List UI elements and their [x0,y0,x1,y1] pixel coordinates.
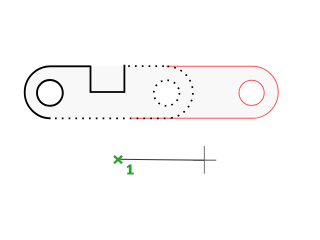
link body fill (light gray interior of stretched link) [25,66,278,118]
wire: solid black notch [91,65,125,92]
node label X1 (green), drawn as strokes [114,156,134,174]
left hole white fill [37,80,63,106]
left hole circle (black) [37,80,63,106]
original right hole white fill [154,80,180,106]
wire: red stretched preview outline [132,66,278,118]
new right hole white fill [239,80,264,105]
wire: dotted bottom edge (ghost of selected geometry) [55,117,171,119]
wire: rubber-band line from base point to cursor [120,158,204,161]
crosshair cursor [193,146,216,174]
dotted arc: original right rounded end [168,66,193,118]
wire: solid black outline, left rounded end + top edge [25,66,91,118]
dotted circle: original right hole [154,80,180,106]
red circle: new right hole [239,80,264,105]
wire: dotted top edge segment [128,65,166,67]
